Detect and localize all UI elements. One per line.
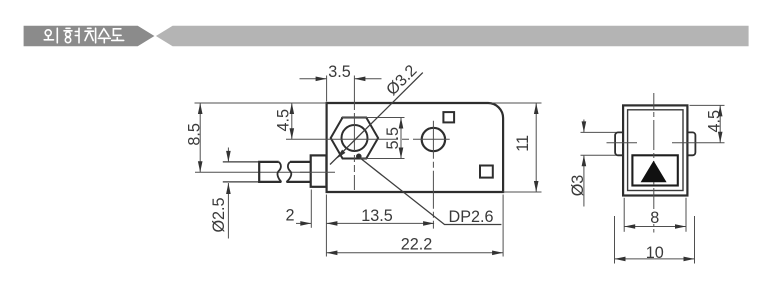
dimension 13.5 <box>325 195 327 257</box>
svg-text:4.5: 4.5 <box>275 109 293 132</box>
glyph 수 <box>98 29 110 43</box>
svg-text:8: 8 <box>650 209 659 227</box>
leader O3.2 <box>330 73 423 165</box>
vertical centerline through nut <box>353 76 355 104</box>
dimension 10 <box>615 216 695 264</box>
glyph 치 <box>85 28 96 43</box>
dimension 22.2 <box>502 195 504 257</box>
glyph 도 <box>112 29 124 41</box>
header hangul text 외형 치수도 <box>44 28 124 43</box>
header dark title bar <box>24 26 155 46</box>
vertical centerline right view <box>653 93 655 233</box>
dimension 8 <box>624 198 686 232</box>
small square top <box>443 112 454 122</box>
cable wire thin section <box>223 162 259 182</box>
body outer rect <box>623 105 687 195</box>
right mounting ear <box>687 132 695 155</box>
sensing face box <box>632 155 677 185</box>
cable centerline <box>195 171 335 173</box>
svg-text:Ø2.5: Ø2.5 <box>210 197 228 232</box>
glyph 외 <box>44 28 57 43</box>
left mounting ear <box>615 132 623 155</box>
hole circle in nut <box>342 125 368 151</box>
svg-text:3.5: 3.5 <box>328 63 351 81</box>
cable jacket section 2 with break <box>286 162 310 182</box>
dimension 3.5 <box>300 76 382 102</box>
svg-text:5.5: 5.5 <box>384 127 402 150</box>
dimension 11 <box>490 102 542 104</box>
mounting hole circle <box>422 128 445 151</box>
body outline <box>327 103 504 192</box>
triangle mark <box>641 161 667 183</box>
small square bottom <box>480 166 493 178</box>
hex nut <box>331 118 378 159</box>
svg-text:10: 10 <box>646 244 664 262</box>
dimension O2.5 cable <box>227 148 229 239</box>
dimension 5.5 <box>341 118 405 159</box>
horizontal centerline through nut and hole <box>286 138 450 140</box>
dimension 8.5 <box>195 102 327 104</box>
header light bar <box>156 26 749 46</box>
strain relief boot <box>311 155 327 186</box>
cable centerline over boot <box>300 171 335 173</box>
svg-text:8.5: 8.5 <box>186 123 204 146</box>
dimension 4.5 <box>291 103 293 139</box>
dimension O3 <box>581 120 617 207</box>
svg-text:22.2: 22.2 <box>401 236 433 254</box>
svg-text:4.5: 4.5 <box>706 110 724 133</box>
svg-text:13.5: 13.5 <box>361 207 393 225</box>
svg-text:11: 11 <box>514 135 532 152</box>
body inner rect <box>628 110 683 191</box>
dimension 2 <box>310 190 312 228</box>
leader DP2.6 with dot <box>356 154 362 160</box>
horizontal centerline right view <box>607 142 638 144</box>
svg-text:Ø3: Ø3 <box>569 175 587 197</box>
cable jacket section 1 with break <box>259 162 281 182</box>
dimension 4.5 right view <box>690 104 725 106</box>
svg-text:2: 2 <box>285 207 294 225</box>
glyph 형 <box>64 28 79 43</box>
vertical centerline through mounting hole <box>432 121 434 229</box>
svg-text:DP2.6: DP2.6 <box>449 208 494 226</box>
